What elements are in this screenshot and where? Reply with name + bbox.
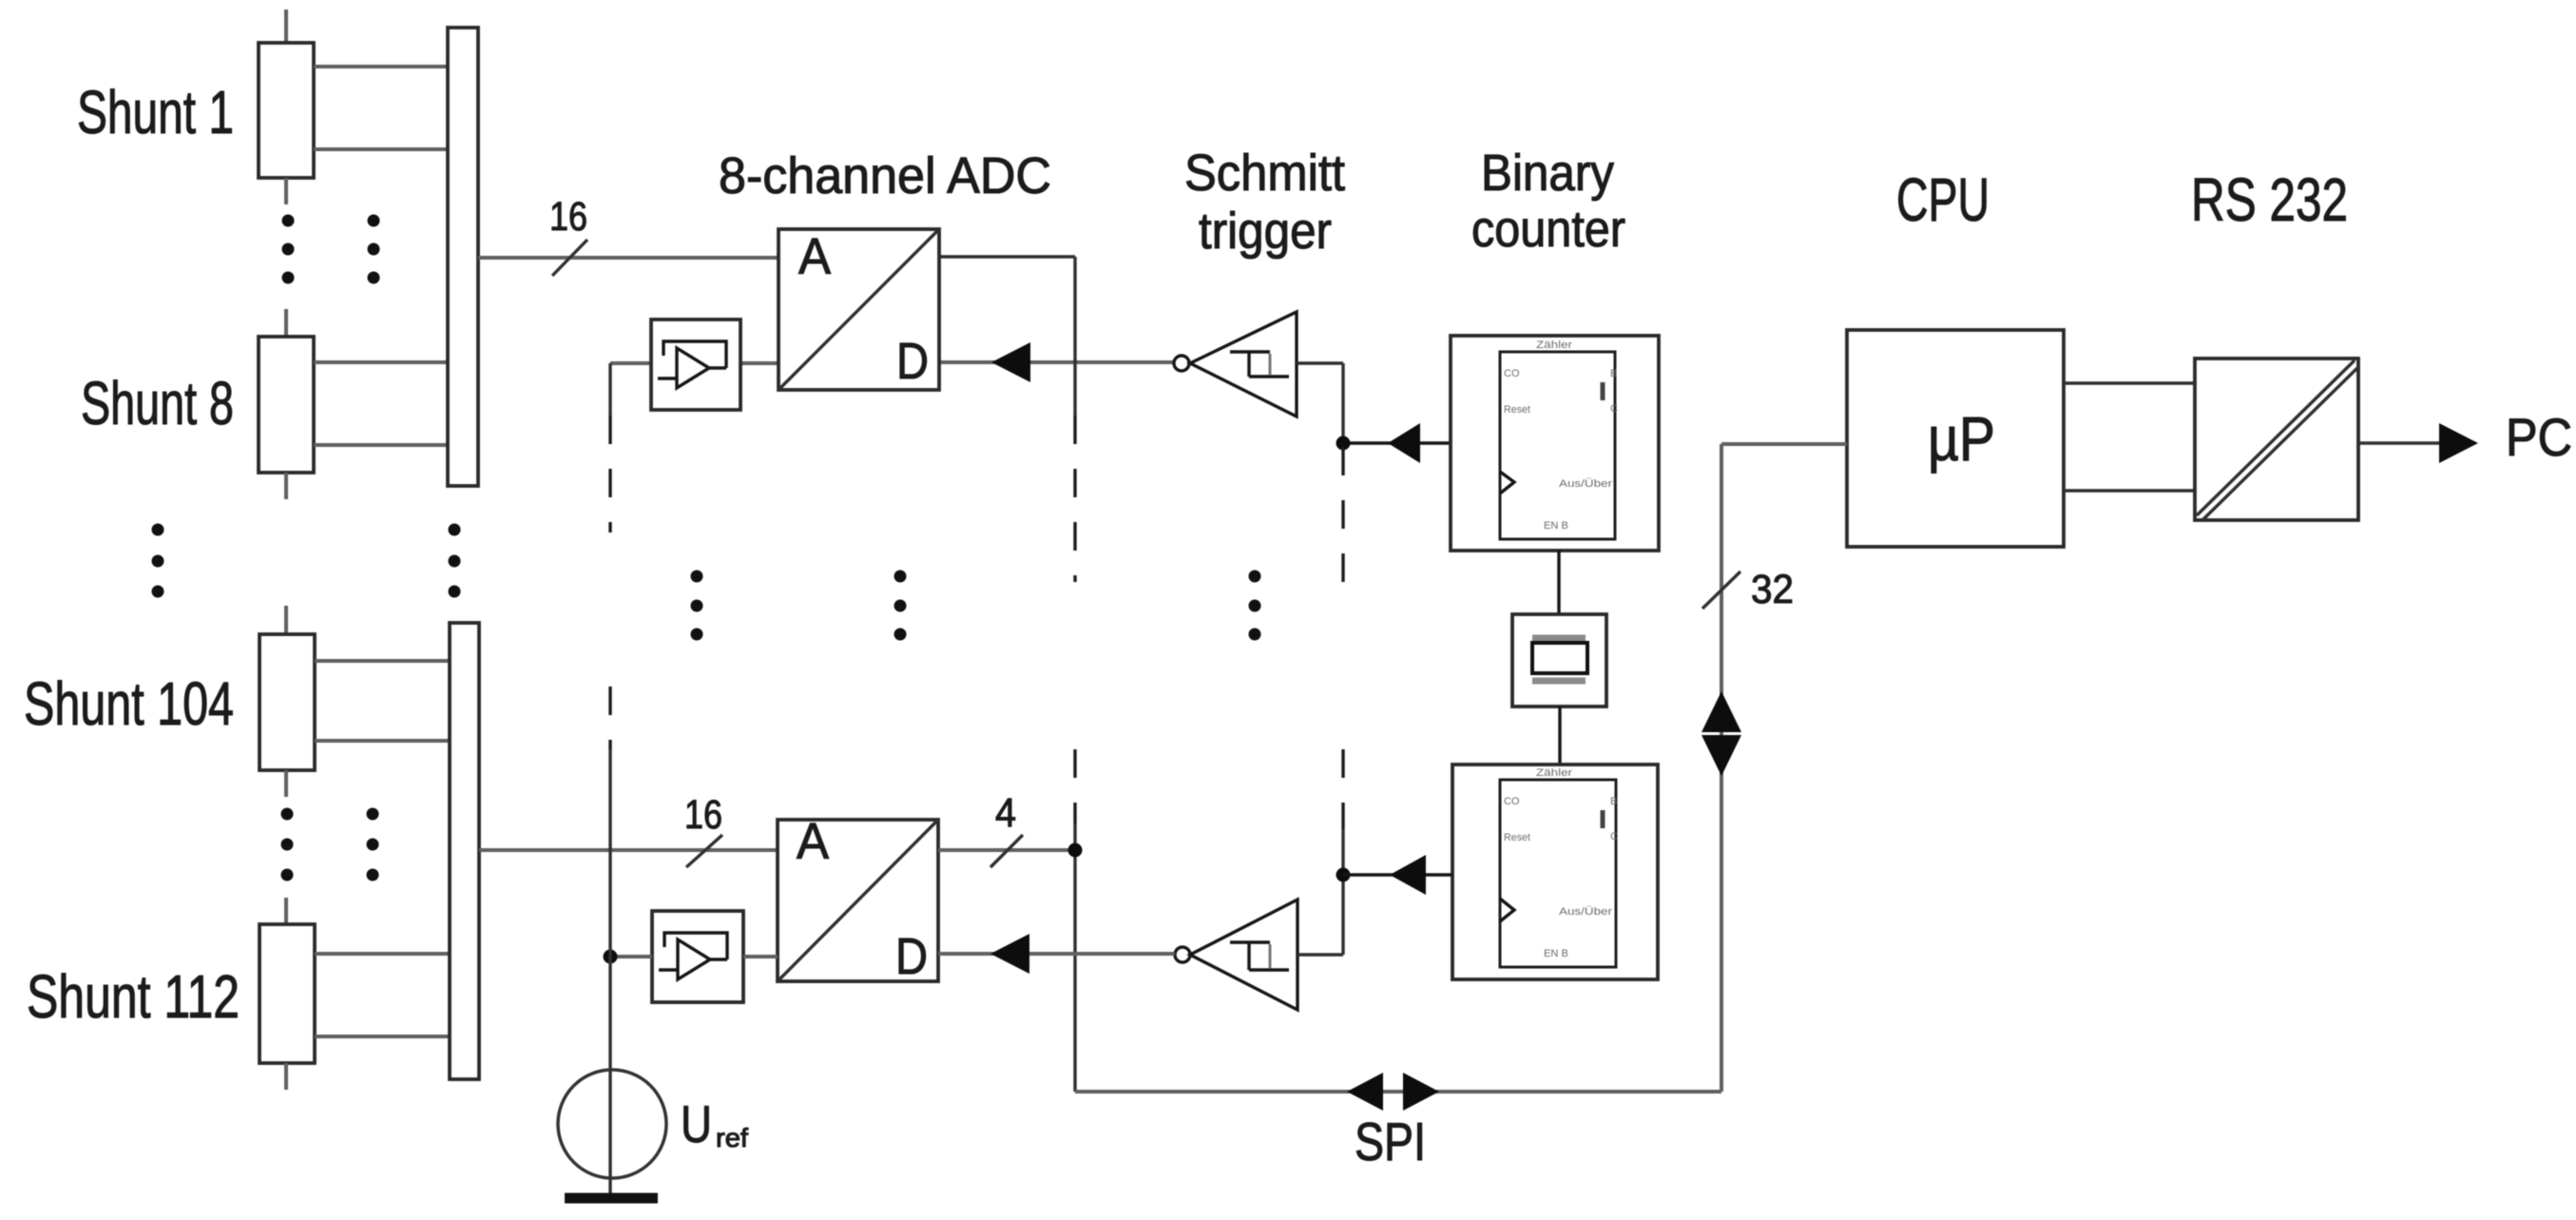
- svg-text:Aus/Über: Aus/Über: [1559, 906, 1612, 918]
- svg-text:trigger: trigger: [1199, 203, 1332, 260]
- svg-text:D: D: [896, 333, 929, 390]
- svg-text:counter: counter: [1471, 201, 1625, 258]
- svg-text:Shunt 104: Shunt 104: [24, 669, 234, 738]
- svg-text:8-channel ADC: 8-channel ADC: [719, 147, 1051, 204]
- svg-text:Reset: Reset: [1504, 832, 1530, 843]
- svg-text:Aus/Über: Aus/Über: [1559, 478, 1612, 490]
- svg-text:RS 232: RS 232: [2191, 165, 2348, 234]
- svg-text:16: 16: [549, 194, 587, 240]
- svg-text:Zähler: Zähler: [1536, 339, 1572, 351]
- svg-text:32: 32: [1751, 567, 1794, 612]
- svg-text:EN B: EN B: [1544, 520, 1568, 532]
- svg-text:SPI: SPI: [1355, 1112, 1426, 1172]
- svg-text:C: C: [1610, 831, 1618, 842]
- svg-text:CPU: CPU: [1896, 165, 1990, 234]
- svg-text:16: 16: [684, 792, 722, 838]
- svg-text:C: C: [1610, 403, 1618, 415]
- svg-text:µP: µP: [1928, 403, 1995, 474]
- svg-text:CO: CO: [1504, 796, 1520, 807]
- svg-text:Reset: Reset: [1504, 404, 1530, 416]
- svg-text:B: B: [1610, 796, 1617, 807]
- svg-text:PC: PC: [2506, 407, 2572, 467]
- svg-text:Shunt 112: Shunt 112: [27, 962, 240, 1031]
- svg-text:CO: CO: [1504, 368, 1520, 379]
- svg-text:ref: ref: [716, 1123, 748, 1152]
- svg-text:B: B: [1610, 368, 1617, 379]
- svg-text:A: A: [798, 228, 831, 285]
- svg-text:4: 4: [995, 790, 1016, 836]
- svg-text:Zähler: Zähler: [1536, 767, 1572, 779]
- svg-text:D: D: [895, 928, 928, 985]
- svg-text:EN B: EN B: [1544, 948, 1568, 959]
- svg-text:Shunt 1: Shunt 1: [77, 78, 234, 146]
- svg-text:Schmitt: Schmitt: [1184, 145, 1345, 202]
- svg-text:U: U: [681, 1094, 712, 1153]
- svg-text:Shunt 8: Shunt 8: [81, 369, 234, 437]
- svg-text:Binary: Binary: [1481, 145, 1614, 202]
- svg-text:A: A: [797, 813, 829, 870]
